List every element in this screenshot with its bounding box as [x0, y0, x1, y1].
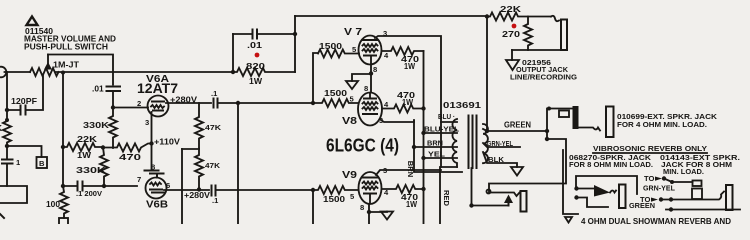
wire YEL tap [421, 150, 457, 161]
capacitor 120PF [5, 72, 43, 115]
ground (V9) [381, 212, 393, 220]
resistor 47K (lower) [195, 149, 221, 192]
svg-text:BLK: BLK [488, 155, 505, 164]
svg-text:330K: 330K [76, 165, 106, 175]
svg-text:1W: 1W [402, 97, 413, 107]
ext spkr jack 4 ohm [606, 107, 718, 138]
tube V9 (6L6GC) [342, 166, 389, 212]
wire main input y72 [5, 71, 31, 73]
resistor 22K [487, 4, 551, 21]
wire 270 bottom [512, 49, 561, 51]
svg-text:YEL: YEL [428, 150, 445, 159]
tube V7 (6L6GC) [344, 27, 389, 74]
node B [5, 144, 47, 168]
svg-text:FOR 8 OHM MIN LOAD.: FOR 8 OHM MIN LOAD. [569, 160, 653, 169]
svg-text:.1 200V: .1 200V [76, 189, 103, 198]
svg-text:.1: .1 [211, 89, 218, 98]
tube V6B (12AT7 half) [137, 175, 170, 211]
potentiometer 1M-JT [30, 55, 80, 77]
resistor 1500 (V9 grid) [313, 186, 358, 204]
resistor 470 1W (V7 screen) [382, 47, 424, 71]
svg-text:MIN. LOAD.: MIN. LOAD. [663, 167, 704, 176]
node V10 grid bus [236, 101, 240, 224]
resistor (left edge, clipped) [0, 110, 11, 146]
resistor 470 1W (V9 screen) [382, 185, 424, 209]
svg-text:7: 7 [137, 175, 141, 184]
svg-text:1500: 1500 [323, 194, 345, 204]
tube V8 (6L6GC inverted) [342, 84, 389, 127]
wire V6B plate rail [164, 189, 209, 191]
svg-text:1500: 1500 [324, 88, 347, 98]
BRN riser down [406, 121, 462, 177]
svg-text:V6B: V6B [146, 200, 168, 211]
capacitor .1 200V [61, 182, 137, 199]
svg-text:TO: TO [644, 174, 655, 183]
capacitor .1 (left, clipped) [2, 146, 21, 186]
wire grid to V6A pin2 [113, 107, 148, 109]
svg-text:BLU ·: BLU · [438, 112, 455, 121]
svg-text:1M-JT: 1M-JT [53, 60, 80, 70]
node PI upper output [311, 101, 315, 105]
wire V6A cathode pin3 [145, 112, 154, 171]
svg-text:FOR 4 OHM MIN. LOAD.: FOR 4 OHM MIN. LOAD. [617, 120, 707, 129]
svg-text:K: K [0, 123, 2, 133]
resistor 1500 (V7 grid) [318, 41, 359, 58]
svg-text:PUSH-PULL SWITCH: PUSH-PULL SWITCH [24, 42, 108, 52]
svg-text:470: 470 [119, 152, 142, 162]
vibrosonic labels [569, 153, 740, 176]
svg-text:GRN-YEL: GRN-YEL [643, 184, 675, 193]
resistor 270 [502, 17, 532, 51]
svg-text:BRN: BRN [427, 139, 443, 148]
speaker jack tip riser (green path) [487, 131, 567, 194]
output jack (line/recording) [551, 16, 567, 50]
wire GREEN [483, 120, 549, 134]
svg-text:VIBROSONIC REVERB ONLY: VIBROSONIC REVERB ONLY [593, 144, 707, 153]
resistor 100 [46, 186, 68, 226]
vibrosonic jack wiring [563, 150, 637, 214]
wire V9 cathode [367, 204, 387, 224]
bottom note marker [565, 217, 572, 223]
transformer secondary winding [483, 124, 488, 163]
svg-text:1W: 1W [404, 61, 415, 71]
ground (BLK) [511, 167, 523, 176]
node grid V6A junction [111, 105, 115, 109]
svg-text:V 7: V 7 [344, 27, 362, 38]
tube V6A (12AT7 half) [137, 74, 178, 117]
capacitor .1 (V6A coupling) [211, 89, 313, 108]
wire pot right to bus [56, 71, 233, 73]
resistor 330K (upper) [83, 108, 117, 149]
svg-text:GREEN: GREEN [629, 201, 655, 210]
resistor 330K (lower) [76, 148, 108, 187]
wire GRN-YEL [483, 139, 520, 148]
wire V7 cathode to ground [352, 65, 373, 93]
wire BLK to ground [483, 152, 517, 167]
resistor 1500 (V8 grid) [313, 88, 358, 107]
note marker triangle A [27, 17, 38, 26]
node circle (left edge, cut) [0, 67, 6, 78]
wire V7 plate to BLU riser [375, 36, 441, 167]
screen bus [421, 51, 425, 224]
svg-text:013691: 013691 [443, 100, 481, 110]
wire 22K junction riser [485, 14, 489, 18]
svg-text:1W: 1W [406, 199, 417, 209]
svg-text:8: 8 [364, 84, 368, 93]
svg-text:V8: V8 [342, 116, 357, 127]
resistor 820 1W [231, 61, 295, 86]
cathode bracket / switch [145, 163, 164, 178]
ground (V7/V8) [346, 81, 358, 89]
wire V6A plate +280V [166, 95, 211, 105]
svg-text:LINE/RECORDING: LINE/RECORDING [510, 73, 577, 82]
main speaker jack [489, 191, 527, 212]
riser to V10 grid [312, 190, 314, 224]
svg-text:GRN-YEL: GRN-YEL [487, 139, 513, 148]
svg-text:820: 820 [246, 61, 265, 71]
node 22K/470 junction [101, 145, 105, 149]
svg-text:V9: V9 [342, 170, 357, 181]
ext 8 ohm jack rails [661, 179, 740, 212]
transformer primary winding [452, 119, 457, 167]
wire V8 plate to BRN riser [381, 120, 414, 122]
capacitor .1 (V6B coupling) [212, 186, 314, 206]
svg-text:47K: 47K [205, 123, 222, 132]
svg-text:+280V: +280V [184, 190, 210, 200]
svg-text:1500: 1500 [319, 41, 342, 51]
svg-text:BRN: BRN [406, 161, 415, 177]
red mark 1 [255, 53, 260, 58]
wire BLU tap [438, 112, 457, 122]
svg-text:330K: 330K [83, 120, 109, 130]
svg-text:120PF: 120PF [11, 96, 37, 106]
red mark 2 [512, 24, 517, 29]
vibrosonic heading [593, 144, 707, 153]
svg-text:4 OHM DUAL SHOWMAN REVERB AND: 4 OHM DUAL SHOWMAN REVERB AND [581, 216, 731, 224]
svg-text:8: 8 [151, 163, 155, 172]
transformer core [469, 116, 477, 169]
node .01/820 right + riser [293, 16, 297, 72]
svg-text:8: 8 [373, 65, 377, 74]
wire riser to V7 grid resistor [313, 53, 318, 103]
wire V9 plate to BLU riser [376, 170, 441, 175]
svg-text:1W: 1W [77, 150, 91, 160]
svg-text:.01: .01 [247, 40, 262, 50]
svg-text:3: 3 [145, 118, 149, 127]
wire RED lead down [440, 167, 457, 224]
push-pull switch loop wire [48, 55, 113, 85]
TO GRN-YEL [643, 174, 675, 193]
svg-text:270: 270 [502, 29, 520, 39]
svg-text:12AT7: 12AT7 [137, 80, 178, 96]
svg-text:6L6GC (4): 6L6GC (4) [326, 135, 399, 156]
wire BRN tap [414, 139, 457, 148]
svg-text:8: 8 [360, 203, 364, 212]
svg-text:+280V: +280V [170, 95, 197, 105]
node PI lower output [311, 188, 315, 192]
wire bottom-left staircase [0, 186, 27, 203]
svg-text:2: 2 [137, 99, 141, 108]
TO GREEN [629, 195, 663, 210]
jack shorting contact from core [469, 168, 513, 208]
wire stub bottom-left [0, 214, 4, 218]
capacitor .01 (master volume) [92, 84, 120, 108]
svg-text:.1: .1 [212, 196, 219, 205]
wire BLU-YEL tap [421, 125, 459, 136]
wire top line to 22K [295, 15, 487, 17]
resistor 470 1W (V8 screen) [382, 90, 424, 113]
svg-text:22K: 22K [500, 4, 521, 14]
label 011540 master volume [24, 26, 116, 52]
svg-text:47K: 47K [205, 161, 221, 170]
svg-text:GREEN: GREEN [504, 120, 531, 130]
capacitor .01 (feedback) [233, 30, 295, 51]
wire riser .01/820 left [232, 34, 234, 72]
svg-text:+110V: +110V [154, 137, 180, 147]
svg-text:RED: RED [442, 190, 451, 207]
svg-text:100: 100 [46, 199, 60, 209]
svg-text:B: B [39, 159, 45, 168]
svg-text:1W: 1W [249, 76, 262, 86]
resistor 47K (upper) [195, 103, 222, 149]
resistor 22K 1W [61, 134, 103, 160]
svg-text:22K: 22K [77, 134, 97, 144]
resistor 470 (tail) [103, 144, 152, 163]
output jack marker [506, 50, 577, 82]
wire cathode riser to +110V rail [182, 149, 199, 224]
svg-text:6: 6 [166, 181, 170, 190]
ext spkr 4 ohm feed [547, 106, 600, 131]
svg-text:.01: .01 [92, 84, 104, 94]
